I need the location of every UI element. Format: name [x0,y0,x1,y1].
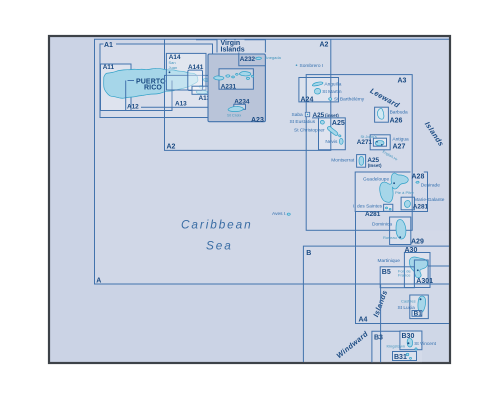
svg-text:Marie-Galante: Marie-Galante [414,197,445,203]
svg-text:Martinique: Martinique [378,258,401,264]
svg-text:A25: A25 [332,120,345,127]
island Puerto Rico [104,69,198,99]
wash region B3 [372,331,422,362]
wash region B [303,246,449,362]
wash region A4 [356,230,450,323]
svg-text:A11: A11 [103,64,115,71]
box A231 [219,69,253,89]
svg-text:Desirade: Desirade [421,182,441,188]
svg-text:Juan: Juan [169,65,178,70]
svg-text:A271: A271 [357,139,373,146]
svg-text:A: A [96,277,101,284]
svg-text:Anegada: Anegada [265,55,282,60]
svg-text:St Croix: St Croix [227,113,241,118]
island Barbuda [377,108,383,119]
box B1 St Lucia [410,295,429,319]
wash region A281 MG [401,197,414,210]
wash region saintes [384,204,393,211]
island Antigua [375,141,384,146]
svg-text:Islands: Islands [221,47,245,54]
svg-text:Sea: Sea [206,238,233,252]
box A2 [165,39,331,150]
wash region A24 [299,78,339,102]
wash region A1 [100,44,213,118]
box A26 [375,107,389,122]
box B3 [372,331,400,362]
islands des Saintes [385,207,387,209]
box A271 [373,138,386,146]
island Desirade [416,181,419,183]
svg-text:France: France [398,273,411,278]
svg-text:A232: A232 [240,56,256,63]
svg-text:St Barthélémy: St Barthélémy [334,97,365,103]
svg-text:A301: A301 [416,278,433,285]
svg-text:St Martin: St Martin [322,89,342,95]
island Nevis [339,139,343,145]
wash region A26 [375,107,389,122]
svg-text:A27: A27 [393,144,406,151]
box A25 Montserrat inset [357,155,366,168]
marker B31 [393,352,417,361]
svg-text:(Inset): (Inset) [368,163,382,168]
svg-text:Anguilla: Anguilla [324,82,341,88]
svg-text:Sombrero I: Sombrero I [300,63,324,69]
box B5 [380,267,414,288]
island St Barthelemy [329,98,332,101]
wire divider [380,284,382,362]
svg-text:Caribbean: Caribbean [181,217,253,231]
svg-text:A30: A30 [405,247,418,254]
line A301 ext [428,265,449,267]
box A301 [414,260,428,284]
wash region A2 [165,39,331,150]
svg-text:Nevis: Nevis [325,139,338,145]
svg-text:A26: A26 [390,117,403,124]
island St Christopher [327,127,337,136]
box B30 [400,331,422,350]
island Culebra [199,85,203,88]
islet east PR [203,79,208,82]
svg-text:A29: A29 [411,238,424,245]
svg-text:B3: B3 [374,335,383,342]
svg-text:A13: A13 [175,100,187,107]
svg-text:I. des Saintes: I. des Saintes [353,203,383,209]
marker B1 [412,311,422,317]
island Dominica [396,220,406,240]
svg-text:A28: A28 [412,173,425,180]
svg-text:Antigua: Antigua [392,136,409,142]
wash region B31 [393,352,417,361]
svg-text:St Vincent: St Vincent [414,341,436,347]
svg-text:A2: A2 [320,41,329,48]
box A11 [101,64,132,111]
svg-text:A24: A24 [301,96,314,103]
island Anegada [256,57,262,59]
box A23 outline top [196,40,265,53]
svg-text:A141: A141 [188,64,204,71]
wash region A [95,39,450,362]
svg-text:A4: A4 [359,316,368,323]
svg-text:A234: A234 [234,99,250,106]
box A232 [239,53,266,66]
box A1 [100,44,213,118]
svg-text:Dominica: Dominica [372,221,392,227]
svg-text:A2: A2 [167,144,176,151]
svg-text:A23: A23 [251,117,264,124]
box A234 [234,104,246,109]
box A25 [312,118,345,150]
svg-text:Castries: Castries [401,299,416,304]
wash region A25 [319,118,346,150]
box A29 Dominica [390,217,411,245]
island St Vincent [407,338,412,347]
wash region A3 [306,75,412,231]
place Sombrero I [296,64,298,66]
box B [303,246,449,362]
svg-text:Pte à Pître: Pte à Pître [395,190,415,195]
wash region A28 [355,172,427,212]
island Marie-Galante [404,201,410,208]
wash region A271 [373,138,386,146]
island Vieques [196,90,207,94]
svg-text:B1: B1 [414,311,423,318]
svg-text:Aves I.: Aves I. [272,211,287,217]
svg-text:A231: A231 [221,83,237,90]
box A12 [126,81,172,111]
svg-text:B31: B31 [394,354,407,361]
box des Saintes [384,204,393,211]
box A [95,39,450,284]
box A141 [188,70,203,90]
island St Lucia [418,296,426,313]
box A14 [166,53,206,90]
svg-text:Saba: Saba [292,112,304,118]
svg-text:Barbuda: Barbuda [390,110,408,116]
svg-text:St Christopher: St Christopher [294,128,325,134]
svg-text:B: B [306,250,311,257]
shaded box A23 [208,54,265,122]
wash region A29 [390,217,411,245]
wash region B5 [380,267,414,288]
svg-text:A3: A3 [398,78,407,85]
svg-text:Kingstown: Kingstown [387,343,405,348]
svg-text:Roseau: Roseau [383,235,397,240]
islands Virgin chain [214,76,224,80]
box A24 [299,78,339,102]
box A30 [404,253,430,288]
svg-text:Montserrat: Montserrat [331,158,355,164]
wash region B1 [410,295,429,319]
box A3 [306,75,412,231]
wash region A301 [414,260,428,284]
marker Saba [305,112,309,116]
island St Martin [314,88,320,94]
box A27 [370,135,390,150]
svg-text:A1: A1 [104,42,113,49]
svg-text:RICO: RICO [144,85,162,92]
svg-text:St Eustatius: St Eustatius [290,119,316,125]
box A131 [192,86,210,94]
svg-text:A281: A281 [413,203,429,210]
wash region A30 [404,253,430,288]
islands Grenadines [415,348,417,350]
sea background [49,36,450,363]
svg-text:Guadeloupe: Guadeloupe [363,177,389,183]
box A281 Marie-Galante [401,197,414,210]
island Guadeloupe [380,173,409,202]
island Montserrat [359,156,364,165]
wash region A27 [370,135,390,150]
svg-text:A281: A281 [365,211,381,218]
island Martinique [409,257,427,278]
label PUERTO RICO [128,80,135,82]
island Anguilla [312,82,323,86]
wash region Montserrat [357,155,366,168]
box A13 [165,75,210,107]
box A28 [355,172,427,212]
wash region B30 [400,331,422,349]
island St Eustatius [320,120,324,124]
svg-text:B5: B5 [382,269,391,276]
box A4 [356,212,450,324]
island St Croix [228,106,243,111]
svg-text:A12: A12 [127,103,139,110]
